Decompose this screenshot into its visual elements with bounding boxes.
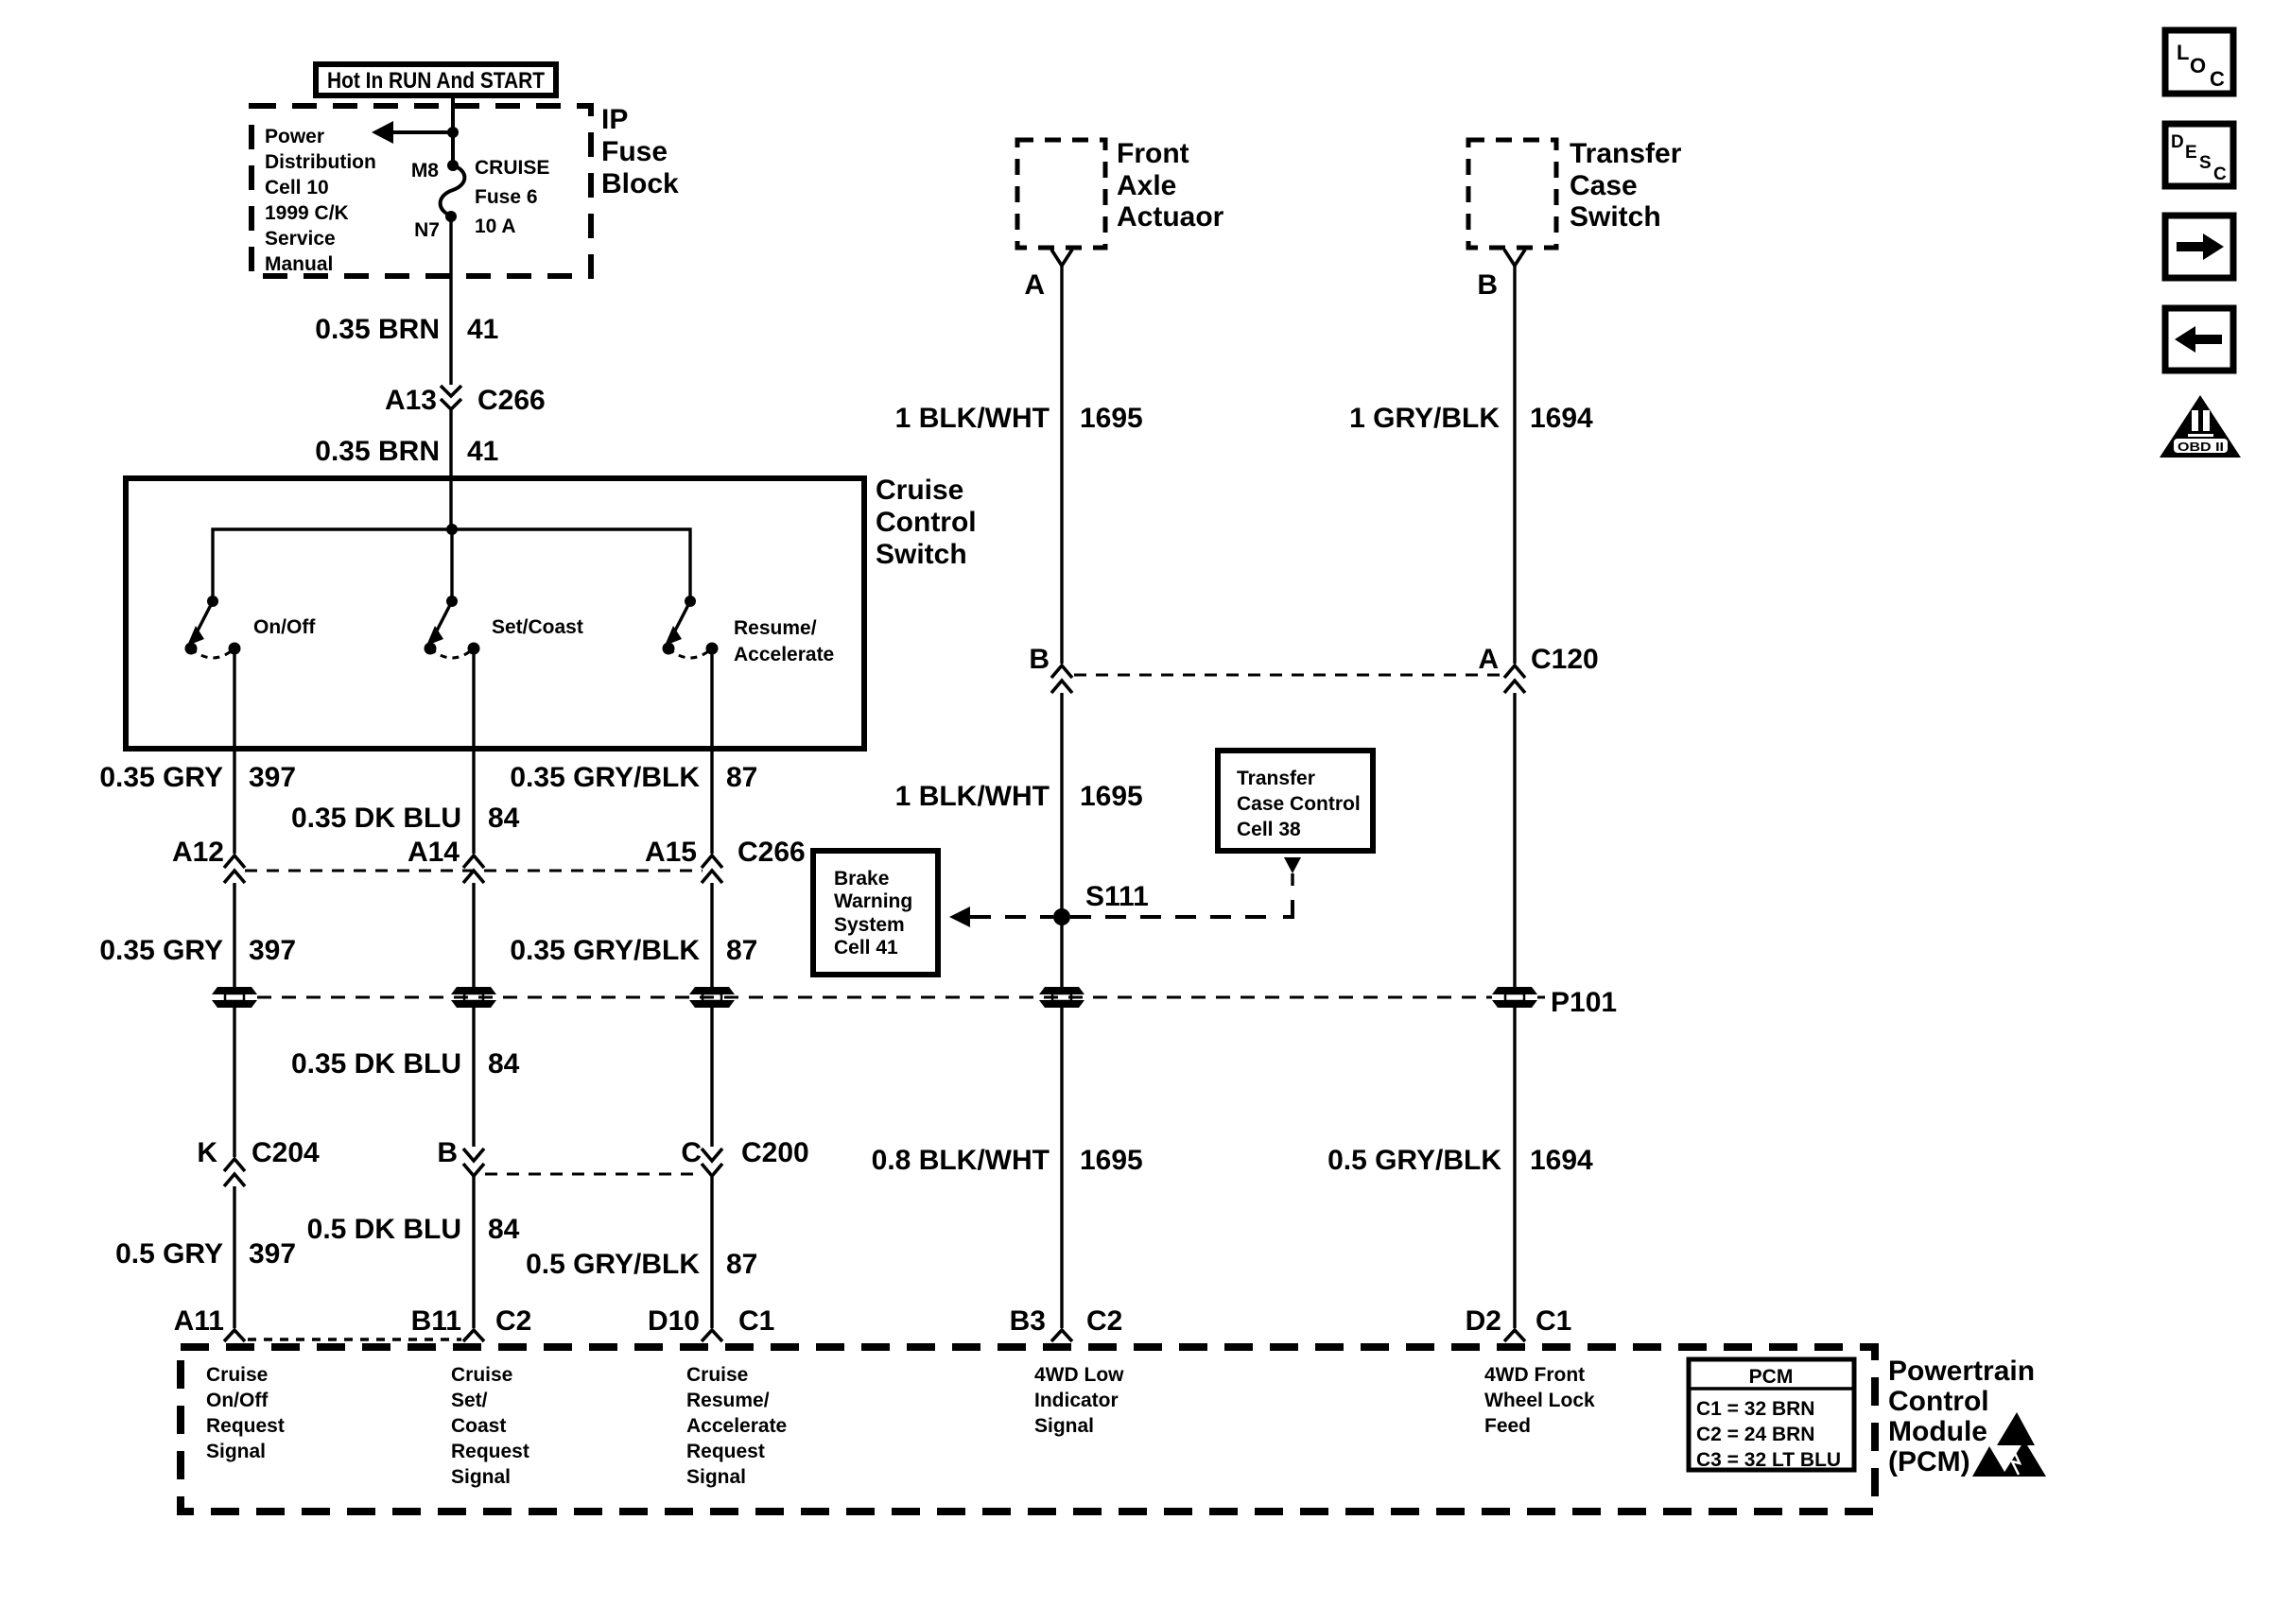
label 0.35 BRN 41 lower [315, 436, 498, 467]
wire 0.5 GRY/BLK 1694 [1513, 1008, 1516, 1328]
ESD triangle pair [1972, 1441, 2046, 1477]
grommet P101 at wire3 [689, 987, 735, 1008]
svg-text:Distribution: Distribution [265, 151, 376, 173]
svg-text:41: 41 [467, 436, 498, 467]
svg-text:1695: 1695 [1080, 781, 1143, 812]
svg-text:84: 84 [488, 1048, 520, 1080]
svg-text:41: 41 [467, 314, 498, 345]
svg-text:Cruise: Cruise [686, 1364, 748, 1386]
label B11 C2 [411, 1305, 532, 1337]
svg-text:Signal: Signal [1034, 1415, 1094, 1437]
svg-text:Transfer: Transfer [1237, 768, 1315, 789]
wire 0.35 GRY 397 mid [233, 883, 235, 987]
wire 3 mid [710, 883, 713, 987]
svg-text:S: S [2199, 153, 2212, 173]
svg-text:Fuse 6: Fuse 6 [475, 186, 538, 208]
wire 0.35 BRN 41 (upper) [449, 216, 452, 385]
label 1 BLK/WHT 1695 mid [895, 781, 1143, 812]
wire 1 BLK/WHT 1695 mid [1060, 693, 1063, 987]
wire 0.35 DK BLU 84 below grommet [472, 1008, 475, 1147]
svg-text:D2: D2 [1466, 1305, 1501, 1337]
wire 1 BLK/WHT 1695 upper [1060, 266, 1063, 664]
svg-text:L: L [2177, 41, 2189, 64]
svg-text:1695: 1695 [1080, 403, 1143, 434]
svg-text:Indicator: Indicator [1034, 1390, 1119, 1411]
svg-text:Accelerate: Accelerate [686, 1415, 787, 1437]
connector C266 pin A12 (double chevron up) [224, 855, 245, 883]
svg-text:Module: Module [1888, 1416, 1987, 1447]
Y connector at transfer case pin B [1504, 250, 1525, 266]
IP fuse block label [601, 104, 679, 199]
svg-text:Hot In RUN And START: Hot In RUN And START [327, 68, 545, 94]
label Transfer Case Switch [1570, 138, 1682, 233]
hot-in-run-and-start box [316, 64, 556, 95]
svg-text:1695: 1695 [1080, 1145, 1143, 1176]
connector C266 pin A14 (double chevron up) [463, 855, 484, 883]
label 0.5 GRY/BLK 1694 [1327, 1145, 1593, 1176]
pin D2 chevron [1504, 1330, 1525, 1341]
svg-text:N7: N7 [414, 219, 440, 241]
label 0.35 GRY/BLK 87 second [510, 935, 757, 966]
svg-text:PCM: PCM [1749, 1366, 1794, 1388]
svg-text:Actuaor: Actuaor [1117, 201, 1224, 233]
wire 5 mid [1513, 693, 1516, 987]
svg-text:C266: C266 [737, 837, 806, 868]
label C C200 [681, 1137, 808, 1168]
svg-text:0.35 DK BLU: 0.35 DK BLU [291, 1048, 461, 1080]
svg-text:A: A [1024, 269, 1045, 301]
svg-text:C2: C2 [495, 1305, 531, 1337]
svg-text:1694: 1694 [1530, 1145, 1593, 1176]
svg-text:C: C [681, 1137, 702, 1168]
wire 1 GRY/BLK 1694 upper [1513, 266, 1516, 664]
svg-text:10 A: 10 A [475, 216, 516, 237]
wire 0.35 BRN 41 (lower) [449, 410, 452, 529]
label 1 GRY/BLK 1694 [1349, 403, 1593, 434]
svg-text:A: A [1478, 644, 1499, 675]
wire center drop [450, 529, 453, 601]
svg-text:397: 397 [249, 1238, 296, 1270]
svg-text:OBD II: OBD II [2178, 440, 2224, 454]
cruise control switch box [126, 478, 864, 749]
svg-text:C3 = 32 LT BLU: C3 = 32 LT BLU [1696, 1449, 1841, 1471]
label 0.5 GRY/BLK 87 [526, 1249, 757, 1280]
wire 0.5 DK BLU 84 [472, 1176, 475, 1328]
svg-text:O: O [2190, 54, 2206, 78]
svg-text:84: 84 [488, 1214, 520, 1245]
svg-text:A13: A13 [385, 385, 437, 416]
svg-text:1 BLK/WHT: 1 BLK/WHT [895, 403, 1050, 434]
svg-text:B: B [1029, 644, 1050, 675]
PCM dashed border [181, 1347, 1875, 1512]
wire 0.35 DK BLU 84 upper [472, 648, 475, 854]
wire 1 below grommet [233, 1008, 235, 1157]
svg-text:Request: Request [686, 1441, 765, 1462]
P101 right tail [1537, 996, 1545, 999]
svg-text:Cruise: Cruise [206, 1364, 268, 1386]
IP fuse block dashed box [252, 106, 591, 276]
svg-text:M8: M8 [411, 160, 439, 181]
svg-text:Signal: Signal [451, 1466, 511, 1488]
arrow to transfer case control [1284, 857, 1301, 886]
power distribution note [265, 126, 376, 275]
svg-text:Cell 38: Cell 38 [1237, 819, 1301, 840]
wire 0.8 BLK/WHT 1695 [1060, 1008, 1063, 1328]
svg-text:Signal: Signal [206, 1441, 266, 1462]
connector C120 pin B (double chevron up) [1051, 665, 1072, 693]
svg-text:A15: A15 [645, 837, 697, 868]
internal bus wire [213, 529, 690, 601]
pin B3 chevron [1051, 1330, 1072, 1341]
icon LOC box [2165, 30, 2233, 94]
junction node [447, 127, 459, 138]
svg-text:Case: Case [1570, 170, 1638, 201]
svg-text:0.35 BRN: 0.35 BRN [315, 314, 440, 345]
arrow branch to power distribution [372, 121, 453, 144]
switch Resume/Accelerate [663, 596, 719, 658]
pin A11 chevron [224, 1330, 245, 1341]
svg-text:Service: Service [265, 228, 336, 250]
wire 0.5 GRY/BLK 87 [710, 1176, 713, 1328]
svg-text:Cell 41: Cell 41 [834, 937, 898, 959]
svg-text:D: D [2171, 132, 2184, 152]
svg-text:Control: Control [1888, 1386, 1989, 1417]
svg-text:P101: P101 [1551, 987, 1617, 1018]
svg-text:C: C [2210, 67, 2225, 91]
svg-text:Front: Front [1117, 138, 1189, 169]
grommet P101 at wire5 [1492, 987, 1537, 1008]
svg-text:Wheel Lock: Wheel Lock [1484, 1390, 1595, 1411]
svg-text:S111: S111 [1085, 881, 1149, 912]
dashed wire S111 to transfer case control [1070, 915, 1275, 919]
connector C266 pin A15 (double chevron up) [702, 855, 722, 883]
svg-text:IP: IP [601, 104, 628, 135]
svg-text:Accelerate: Accelerate [734, 644, 834, 665]
label 0.35 GRY 397 [99, 762, 296, 793]
svg-text:0.5 DK BLU: 0.5 DK BLU [307, 1214, 461, 1245]
svg-text:(PCM): (PCM) [1888, 1446, 1970, 1477]
icon DESC box [2165, 124, 2233, 186]
label Cruise On/Off Request Signal [206, 1364, 285, 1462]
wire from hot box into fuse block [451, 95, 455, 164]
label Front Axle Actuaor [1117, 138, 1224, 233]
label A15 C266 [645, 837, 806, 868]
svg-text:Coast: Coast [451, 1415, 506, 1437]
label K C204 [197, 1137, 320, 1168]
svg-text:C1: C1 [1536, 1305, 1571, 1337]
label D2 C1 [1466, 1305, 1572, 1337]
svg-text:Warning: Warning [834, 890, 912, 912]
svg-text:D10: D10 [648, 1305, 700, 1337]
connector C120 pin A (double chevron up) [1504, 665, 1525, 693]
wire 0.35 GRY/BLK 87 upper [710, 648, 713, 854]
label A C120 [1478, 644, 1598, 675]
connector C266 pin A13 (double chevron down) [441, 386, 461, 409]
svg-text:0.8 BLK/WHT: 0.8 BLK/WHT [872, 1145, 1050, 1176]
wire 0.35 GRY 397 upper [233, 648, 235, 854]
svg-text:Cell 10: Cell 10 [265, 177, 329, 199]
svg-text:0.35 BRN: 0.35 BRN [315, 436, 440, 467]
label 0.35 GRY 397 second [99, 935, 296, 966]
svg-text:1 GRY/BLK: 1 GRY/BLK [1349, 403, 1500, 434]
svg-text:Power: Power [265, 126, 324, 147]
label 0.35 DK BLU 84 [291, 803, 520, 834]
wire 0.5 GRY 397 [233, 1186, 235, 1328]
icon left-arrow box [2165, 308, 2233, 371]
svg-text:Fuse: Fuse [601, 136, 668, 167]
label D10 C1 [648, 1305, 774, 1337]
label 4WD Low Indicator Signal [1034, 1364, 1124, 1437]
label 0.5 GRY 397 [115, 1238, 296, 1270]
svg-text:C: C [2213, 164, 2227, 184]
wire 3 below grommet [710, 1008, 713, 1147]
Y connector at front axle pin A [1051, 250, 1072, 266]
bus junction node [446, 524, 458, 535]
svg-text:Control: Control [876, 507, 977, 538]
svg-text:Manual: Manual [265, 253, 333, 275]
grommet P101 at wire4 [1039, 987, 1084, 1008]
dashed link A11-B11 [248, 1338, 461, 1340]
svg-text:397: 397 [249, 762, 296, 793]
svg-text:1999 C/K: 1999 C/K [265, 202, 349, 224]
transfer case control box [1218, 751, 1373, 851]
svg-text:0.35 DK BLU: 0.35 DK BLU [291, 803, 461, 834]
grommet P101 at wire2 [451, 987, 496, 1008]
svg-text:Transfer: Transfer [1570, 138, 1682, 169]
dashed connector link C120 [1074, 674, 1504, 677]
svg-text:A12: A12 [172, 837, 224, 868]
connector C200 pin C (double chevron down) [702, 1149, 722, 1176]
svg-text:87: 87 [726, 935, 757, 966]
switch Set/Coast [425, 596, 480, 658]
wire 2 mid [472, 883, 475, 987]
label 1 BLK/WHT 1695 [895, 403, 1143, 434]
wire elbow to cell 38 arrow [1283, 900, 1293, 917]
pass-through P101 dashed line [257, 996, 1492, 999]
svg-text:1 BLK/WHT: 1 BLK/WHT [895, 781, 1050, 812]
svg-text:Powertrain: Powertrain [1888, 1356, 2035, 1387]
svg-text:1694: 1694 [1530, 403, 1593, 434]
ESD triangle 1 [1997, 1412, 2035, 1445]
svg-text:B: B [1477, 269, 1498, 301]
svg-text:Request: Request [206, 1415, 285, 1437]
svg-text:84: 84 [488, 803, 520, 834]
front axle actuator dashed box [1017, 140, 1105, 248]
svg-text:C1 = 32 BRN: C1 = 32 BRN [1696, 1398, 1814, 1420]
svg-text:Set/: Set/ [451, 1390, 488, 1411]
svg-text:0.5 GRY/BLK: 0.5 GRY/BLK [1327, 1145, 1501, 1176]
label 0.8 BLK/WHT 1695 [872, 1145, 1143, 1176]
svg-text:CRUISE: CRUISE [475, 157, 549, 179]
svg-text:E: E [2185, 143, 2197, 163]
svg-text:Cruise: Cruise [451, 1364, 512, 1386]
svg-text:Switch: Switch [1570, 201, 1661, 233]
svg-text:Brake: Brake [834, 868, 889, 890]
svg-text:B3: B3 [1010, 1305, 1046, 1337]
svg-text:Set/Coast: Set/Coast [492, 616, 583, 638]
svg-text:C1: C1 [738, 1305, 774, 1337]
svg-text:C2 = 24 BRN: C2 = 24 BRN [1696, 1424, 1814, 1445]
connector C204 pin K (double chevron up) [224, 1159, 245, 1186]
svg-text:Block: Block [601, 168, 679, 199]
svg-text:C200: C200 [741, 1137, 809, 1168]
grommet P101 at wire1 [212, 987, 257, 1008]
dashed wire S111 to brake arrow [970, 915, 1053, 919]
label Cruise Set/Coast Request Signal [451, 1364, 529, 1488]
svg-text:0.35 GRY/BLK: 0.35 GRY/BLK [510, 935, 700, 966]
svg-text:B: B [437, 1137, 458, 1168]
dashed connector link A12-A14-A15 [245, 870, 703, 872]
connector C200 pin B (double chevron down) [463, 1149, 484, 1176]
svg-text:0.35 GRY/BLK: 0.35 GRY/BLK [510, 762, 700, 793]
svg-text:4WD Front: 4WD Front [1484, 1364, 1585, 1386]
cruise control switch label [876, 475, 977, 570]
svg-text:87: 87 [726, 762, 757, 793]
svg-text:Switch: Switch [876, 539, 967, 570]
label 0.35 GRY/BLK 87 [510, 762, 757, 793]
svg-text:C266: C266 [477, 385, 546, 416]
pin D10 chevron [702, 1330, 722, 1341]
svg-text:On/Off: On/Off [253, 616, 316, 638]
dashed connector link B-C [485, 1173, 702, 1176]
svg-text:Request: Request [451, 1441, 529, 1462]
svg-text:0.35 GRY: 0.35 GRY [99, 762, 223, 793]
svg-text:Resume/: Resume/ [734, 617, 817, 639]
svg-text:Signal: Signal [686, 1466, 746, 1488]
svg-text:Resume/: Resume/ [686, 1390, 770, 1411]
svg-text:397: 397 [249, 935, 296, 966]
svg-text:On/Off: On/Off [206, 1390, 269, 1411]
label 0.35 DK BLU 84 second [291, 1048, 520, 1080]
arrow to brake warning system [949, 907, 970, 927]
svg-text:K: K [197, 1137, 217, 1168]
svg-text:0.5 GRY: 0.5 GRY [115, 1238, 223, 1270]
svg-text:B11: B11 [411, 1305, 461, 1337]
label B3 C2 [1010, 1305, 1123, 1337]
PCM connector table [1689, 1359, 1854, 1471]
svg-text:Case Control: Case Control [1237, 793, 1361, 815]
switch On/Off [185, 596, 241, 658]
svg-text:0.35 GRY: 0.35 GRY [99, 935, 223, 966]
svg-text:Feed: Feed [1484, 1415, 1531, 1437]
splice node S111 [1053, 908, 1070, 925]
pin B11 chevron [463, 1330, 484, 1341]
icon right-arrow box [2165, 216, 2233, 278]
brake warning system box [813, 851, 938, 975]
transfer case switch dashed box [1468, 140, 1556, 248]
label Powertrain Control Module (PCM) [1888, 1356, 2035, 1477]
icon OBD II triangle [2160, 395, 2241, 458]
label A13 C266 [385, 385, 546, 416]
fuse F6 CRUISE (element) [441, 160, 465, 222]
svg-text:C120: C120 [1531, 644, 1599, 675]
label 0.5 DK BLU 84 [307, 1214, 520, 1245]
svg-text:System: System [834, 914, 905, 936]
svg-text:Axle: Axle [1117, 170, 1176, 201]
svg-text:C2: C2 [1086, 1305, 1122, 1337]
svg-text:C204: C204 [252, 1137, 320, 1168]
label 0.35 BRN 41 upper [315, 314, 498, 345]
label Resume/Accelerate [734, 617, 834, 665]
label Cruise Resume/Accelerate Request Signal [686, 1364, 787, 1488]
fuse value label [475, 157, 549, 237]
svg-text:Cruise: Cruise [876, 475, 963, 506]
svg-text:87: 87 [726, 1249, 757, 1280]
svg-text:0.5 GRY/BLK: 0.5 GRY/BLK [526, 1249, 700, 1280]
label 4WD Front Wheel Lock Feed [1484, 1364, 1595, 1437]
svg-text:4WD Low: 4WD Low [1034, 1364, 1124, 1386]
svg-text:A14: A14 [408, 837, 460, 868]
svg-text:A11: A11 [174, 1305, 224, 1337]
